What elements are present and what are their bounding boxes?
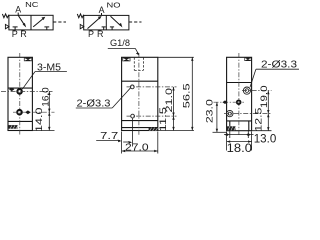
svg-text:A: A [99,5,105,15]
svg-text:23.0: 23.0 [205,99,216,123]
svg-text:16.0: 16.0 [41,87,52,107]
svg-text:27.0: 27.0 [125,141,149,153]
svg-text:7.7: 7.7 [100,130,118,142]
svg-text:13.0: 13.0 [254,134,277,146]
svg-text:18.0: 18.0 [227,141,253,155]
svg-text:14.0: 14.0 [34,107,45,132]
svg-text:R: R [20,29,27,39]
svg-text:12.5: 12.5 [254,108,265,132]
svg-text:19.0: 19.0 [259,85,270,108]
svg-text:11.5: 11.5 [158,107,169,132]
svg-text:G1/8: G1/8 [110,38,130,48]
svg-text:NO: NO [107,3,122,10]
svg-text:NC: NC [25,2,38,9]
svg-text:A: A [15,5,21,15]
svg-text:P: P [88,29,94,39]
svg-text:P: P [12,29,18,39]
svg-text:R: R [97,29,104,39]
svg-text:56.5: 56.5 [182,83,193,108]
